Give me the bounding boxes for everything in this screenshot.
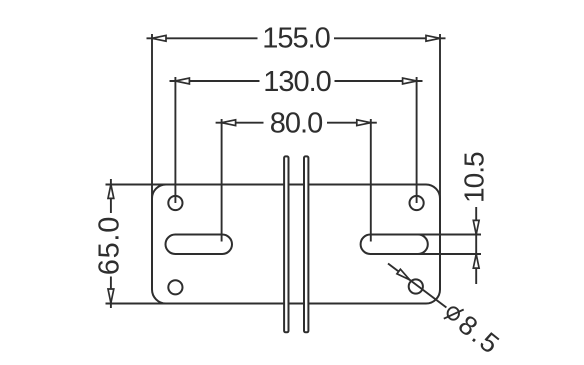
tube left <box>284 156 288 332</box>
dimension text 10.5 <box>459 152 490 203</box>
dimension text 80.0 <box>270 108 322 140</box>
tube right <box>304 156 308 332</box>
slot right <box>361 235 428 255</box>
dimension 65.0 <box>106 179 171 308</box>
dimension text 65.0 <box>93 216 125 275</box>
svg-text:130.0: 130.0 <box>263 66 331 98</box>
svg-text:80.0: 80.0 <box>270 108 322 140</box>
leader diameter symbol <box>444 307 464 319</box>
dimension 10.5 <box>418 207 481 284</box>
plate outline <box>152 185 440 304</box>
leader line dia 8.5 <box>388 264 446 308</box>
dimension 80.0 <box>216 119 377 242</box>
slot left <box>166 235 233 255</box>
hole top-right <box>410 196 424 210</box>
dimension 155.0 <box>147 34 446 200</box>
svg-text:155.0: 155.0 <box>262 23 330 55</box>
dimension 130.0 <box>170 77 423 203</box>
svg-text:10.5: 10.5 <box>459 152 490 203</box>
dimension text 155.0 <box>262 23 330 55</box>
hole bottom-right <box>409 279 423 293</box>
hole bottom-left <box>168 280 182 294</box>
svg-text:65.0: 65.0 <box>93 216 125 275</box>
svg-text:8.5: 8.5 <box>453 309 507 360</box>
leader text 8.5 <box>453 309 507 360</box>
hole top-left <box>168 196 182 210</box>
dimension text 130.0 <box>263 66 331 98</box>
